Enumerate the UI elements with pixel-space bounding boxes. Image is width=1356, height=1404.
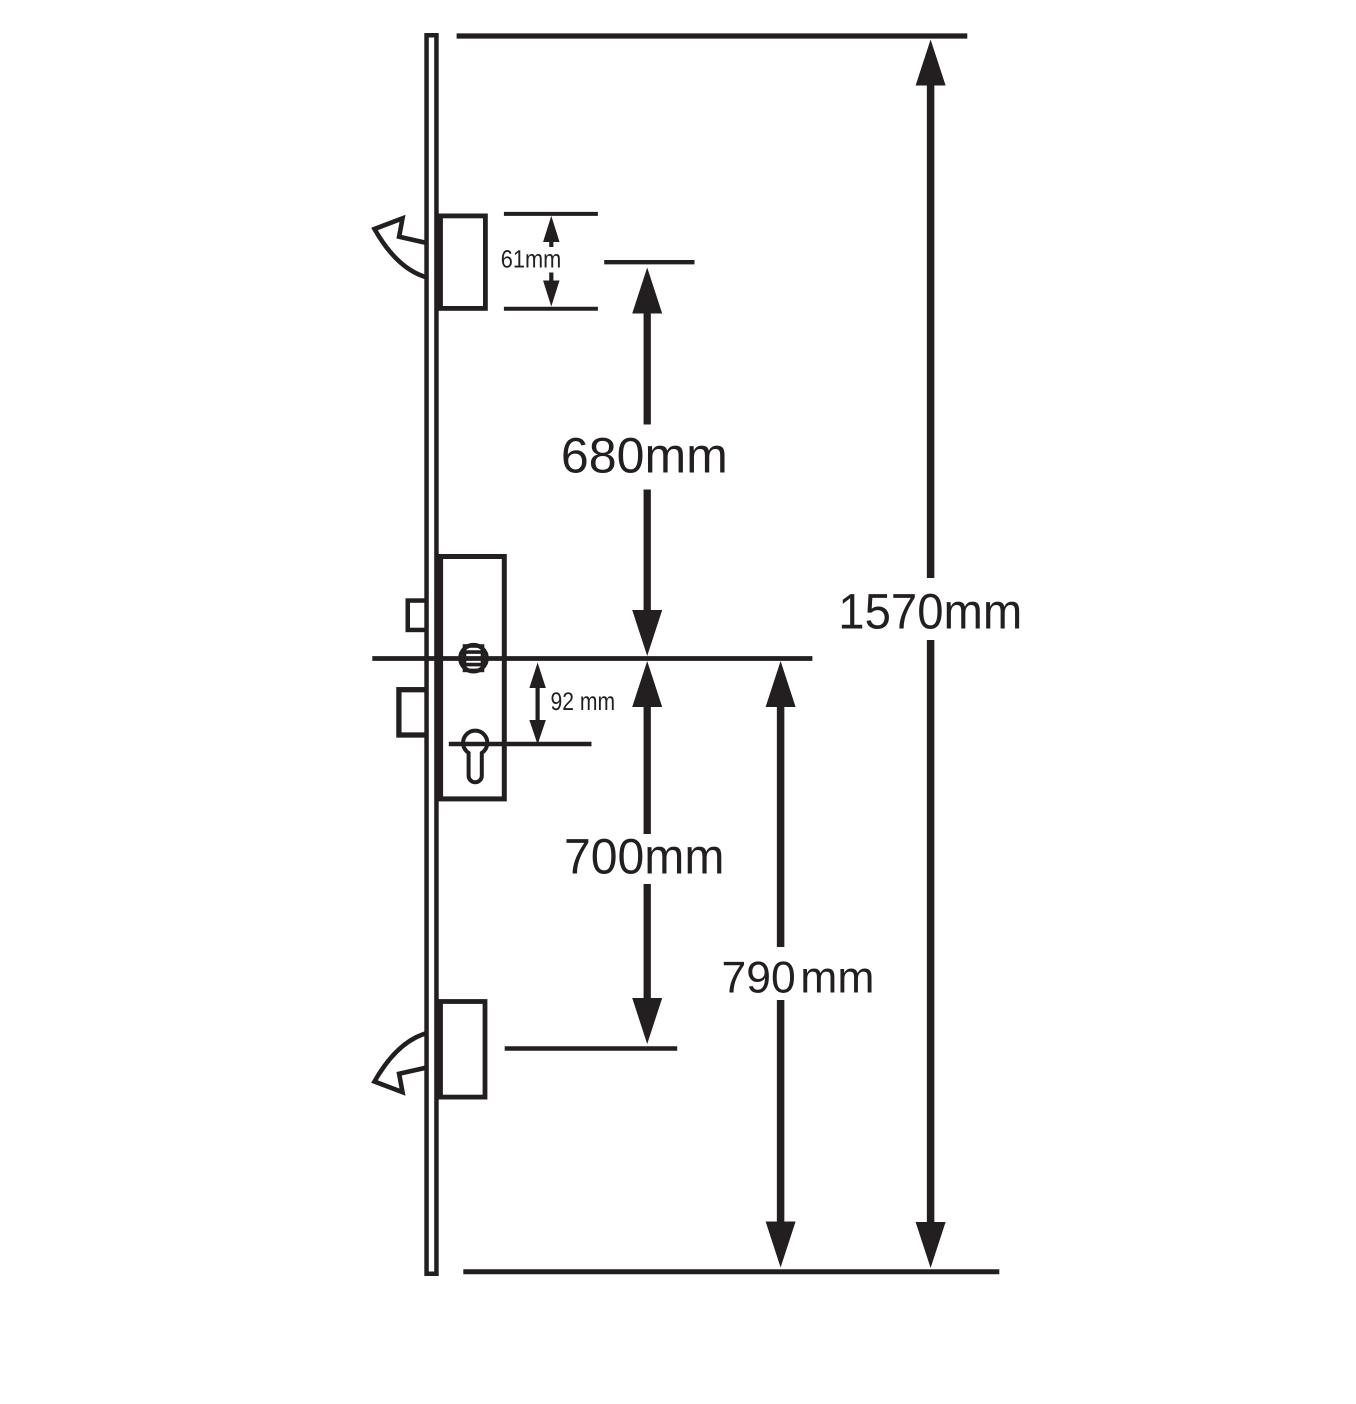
top edge line bbox=[457, 33, 968, 38]
svg-text:680mm: 680mm bbox=[561, 427, 728, 483]
svg-text:92 mm: 92 mm bbox=[551, 688, 616, 716]
790mm dimension arrow bbox=[766, 661, 796, 1268]
61mm bottom reference line bbox=[504, 307, 598, 311]
faceplate bbox=[427, 35, 437, 1274]
1570mm dimension arrow bbox=[916, 40, 946, 1269]
deadbolt bbox=[399, 690, 428, 735]
spindle hub hatch bbox=[465, 646, 483, 670]
lock case bbox=[441, 557, 505, 799]
92mm dimension arrows bbox=[529, 663, 546, 745]
bottom hook reference line bbox=[505, 1046, 678, 1050]
bottom hook claw bbox=[375, 1033, 430, 1093]
700mm dimension arrow bbox=[632, 661, 662, 1044]
61mm dimension arrows bbox=[543, 216, 560, 307]
svg-text:1570mm: 1570mm bbox=[838, 584, 1022, 640]
cylinder line bbox=[449, 742, 592, 746]
centre spindle line bbox=[372, 656, 812, 661]
61mm top reference line bbox=[504, 212, 598, 216]
spindle hub bbox=[460, 645, 486, 671]
latch bolt bbox=[408, 601, 429, 630]
svg-text:61mm: 61mm bbox=[501, 245, 562, 273]
bottom edge line bbox=[463, 1269, 999, 1274]
svg-text:700mm: 700mm bbox=[564, 829, 725, 885]
top hook claw bbox=[375, 218, 430, 278]
bottom hook box bbox=[441, 1002, 486, 1098]
top hook box bbox=[441, 216, 486, 309]
680mm dimension arrow bbox=[632, 268, 662, 657]
680mm top reference line bbox=[604, 260, 694, 264]
euro cylinder bbox=[463, 731, 487, 783]
